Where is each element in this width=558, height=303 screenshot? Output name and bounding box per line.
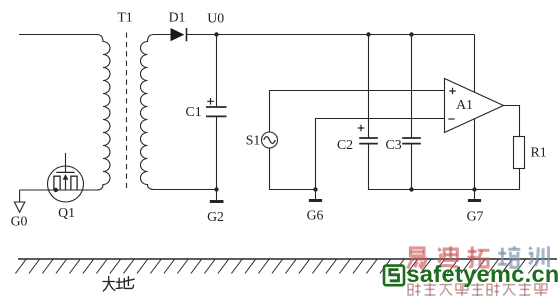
node G2 junction (214, 187, 218, 191)
svg-text:G6: G6 (307, 207, 324, 222)
transformer T1 primary winding (97, 35, 111, 191)
node C3 bottom junction (409, 187, 413, 191)
transistor Q1 drain contact (71, 176, 77, 190)
wire S1 top lead (270, 91, 445, 133)
label earth (da di) (103, 277, 134, 292)
wire primary top lead (19, 34, 97, 36)
wire primary bottom lead (20, 189, 97, 191)
watermark char tuo (467, 247, 489, 267)
capacitor C3 (411, 35, 413, 139)
svg-text:T1: T1 (117, 9, 132, 24)
node top rail C2 tap (366, 32, 370, 36)
watermark char xun (529, 246, 549, 267)
watermark char yi (408, 248, 426, 269)
node G6 junction (313, 187, 317, 191)
node top rail C3 tap (409, 32, 413, 36)
svg-text:D1: D1 (169, 9, 186, 24)
watermark char pei (498, 246, 521, 267)
wire S1 bottom lead (270, 148, 316, 190)
watermark slogan row (408, 283, 547, 296)
svg-text:C1: C1 (186, 104, 202, 119)
capacitor C2 (368, 35, 370, 139)
node G7 junction (472, 187, 476, 191)
watermark logo square S (384, 266, 404, 286)
wire R1 bottom lead (519, 169, 521, 190)
earth hatching (15, 260, 539, 274)
ground G2 (216, 190, 218, 201)
diode D1 (171, 28, 185, 41)
svg-text:Q1: Q1 (58, 205, 75, 220)
wire G0 drop (19, 190, 21, 202)
transistor Q1 envelope circle (48, 166, 84, 202)
wire top rail drop to G7 (474, 35, 476, 190)
svg-text:G0: G0 (11, 213, 28, 228)
transistor Q1 gate lead (65, 153, 67, 172)
wire G6 riser to inverting input (316, 119, 445, 190)
node U0 (214, 32, 218, 36)
svg-text:C2: C2 (337, 137, 353, 152)
ground G6 (315, 190, 317, 200)
svg-text:S1: S1 (246, 132, 261, 147)
ground G0 (open arrow) (14, 202, 24, 212)
earth surface line (18, 258, 557, 260)
transformer core (dashed) (126, 33, 128, 191)
transistor Q1 gate bar (56, 171, 74, 173)
wire top rail (187, 34, 475, 36)
svg-text:A1: A1 (456, 97, 473, 112)
svg-text:U0: U0 (207, 10, 224, 25)
transistor Q1 body arrow (65, 179, 67, 190)
svg-text:G2: G2 (207, 209, 224, 224)
svg-text:safetyemc.cn: safetyemc.cn (407, 261, 558, 287)
transformer T1 secondary winding (141, 35, 217, 190)
capacitor C1 (216, 35, 218, 108)
wire op-amp output (504, 106, 520, 137)
svg-text:G7: G7 (467, 208, 484, 223)
resistor R1 (514, 137, 525, 169)
svg-text:C3: C3 (386, 137, 402, 152)
source S1 (262, 132, 278, 148)
svg-text:R1: R1 (531, 144, 547, 159)
label C2 polarity + (358, 125, 365, 132)
label C1 polarity + (207, 98, 214, 105)
op-amp A1 (445, 79, 504, 133)
transistor Q1 source contact (54, 176, 60, 190)
watermark char di (437, 246, 458, 267)
wire bottom right rail (369, 144, 520, 190)
ground G7 (474, 190, 476, 200)
node Q1 source junction (54, 188, 58, 192)
